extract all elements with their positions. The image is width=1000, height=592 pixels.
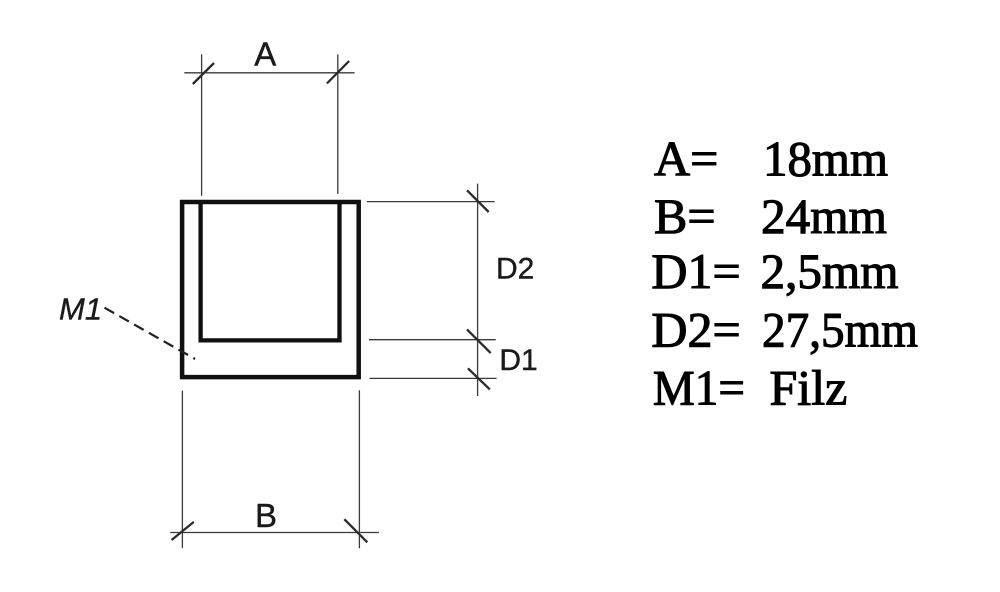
svg-text:24mm: 24mm (761, 188, 887, 244)
svg-text:D2: D2 (496, 252, 534, 285)
svg-text:27,5mm: 27,5mm (762, 301, 918, 357)
svg-text:A=: A= (654, 130, 718, 186)
svg-text:D1: D1 (499, 344, 537, 377)
svg-text:Filz: Filz (770, 359, 848, 415)
svg-text:B=: B= (654, 188, 716, 244)
svg-text:2,5mm: 2,5mm (761, 243, 899, 299)
svg-text:M1: M1 (59, 292, 102, 327)
svg-text:18mm: 18mm (763, 130, 888, 186)
svg-text:B: B (255, 497, 277, 534)
svg-text:D2=: D2= (651, 301, 740, 357)
svg-text:A: A (254, 36, 276, 73)
svg-text:D1=: D1= (651, 243, 740, 299)
svg-text:M1=: M1= (653, 359, 745, 415)
